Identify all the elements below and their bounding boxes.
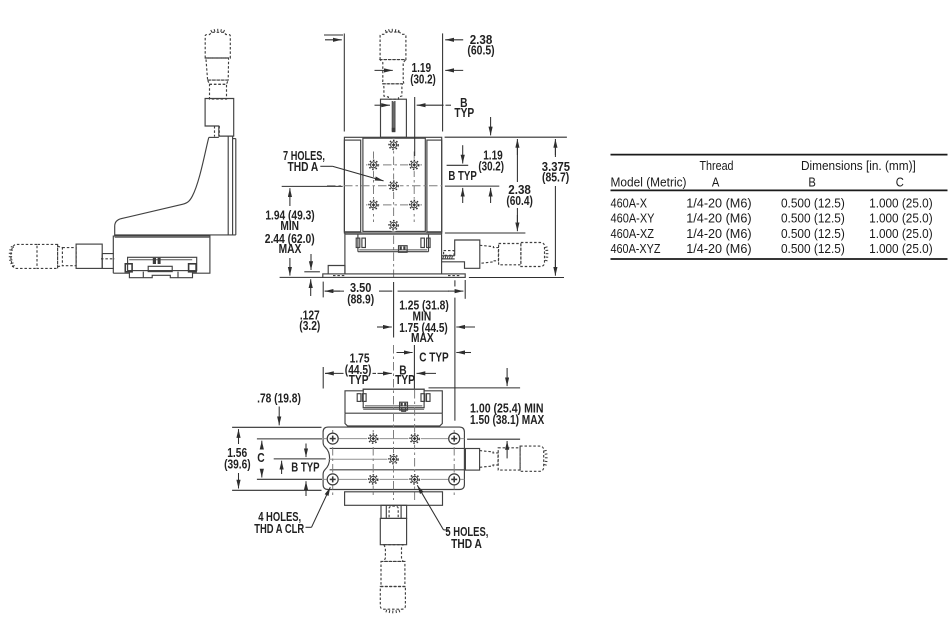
front view: X micrometer leadscrew (dotted) [444,251,454,256]
dim 1.56 (39.6) [232,426,321,428]
plan view: bottom micrometer mount [381,505,407,518]
plan view: bottom micrometer stem (dotted) [384,545,403,562]
plan view: right micrometer block [465,449,479,471]
dim B TYP bottom [417,372,437,374]
svg-text:(39.6): (39.6) [224,456,251,471]
front view: micrometer stem (dotted) [383,84,402,99]
left view: base feet band [129,272,192,278]
dim 3.50 (88.9) base width [322,282,324,298]
dim 1.19 (30.2) right side [445,136,567,138]
front view: micrometer barrel (dotted) [380,60,406,84]
svg-text:THD A CLR: THD A CLR [254,521,304,536]
plan view: platform outline [345,389,442,413]
plan view: hole row lines (gray) [323,438,464,440]
svg-text:TYP: TYP [349,372,369,387]
left view: horizontal micrometer knurl hatch [9,247,15,267]
left view: micrometer mount block [205,99,234,137]
front view: X micrometer thimble (dotted) [521,243,545,267]
svg-text:TYP: TYP [454,105,474,120]
dim .127 (3.2) base plate [304,271,320,273]
plan view: right micrometer barrel (dotted) [498,448,520,470]
left view: vertical micrometer thimble (dotted) [205,32,230,58]
svg-text:1/4-20 (M6): 1/4-20 (M6) [686,226,751,241]
front view: base feet marks (dotted) [333,275,345,277]
front view: X micrometer leadscrew hatch [443,256,453,259]
svg-text:1/4-20 (M6): 1/4-20 (M6) [686,196,751,211]
plan view: platform lower strip [345,413,442,426]
front view: clamp channel [357,234,359,251]
svg-text:460A-X: 460A-X [611,196,648,211]
dim 1.94 (49.3) MIN 2.44 (62.0) MAX [282,185,343,187]
dim B TYP plan view [274,458,326,460]
svg-text:(88.9): (88.9) [347,291,374,306]
svg-text:C: C [257,450,264,465]
svg-text:Dimensions [in. (mm)]: Dimensions [in. (mm)] [801,158,916,173]
plan view: right micrometer knurl hatch [544,450,548,465]
dim 3.375 (85.7) overall height [469,277,564,279]
front view: top plate [363,138,425,231]
svg-text:MAX: MAX [279,241,302,256]
front view: center lines (dashed) [393,140,395,232]
front view: 7 tapped holes THD A [387,139,399,151]
dim 2.38 (60.4) right side [445,232,526,234]
table: top rule [611,154,948,156]
left view: lock screw mark [153,258,156,264]
plan view: stage body [323,427,464,489]
left view: horizontal micrometer thimble (dotted) [11,244,37,268]
front view: clamp ears [356,238,360,247]
dim 1.25 (31.8) MIN 1.75 (44.5) MAX [393,282,395,338]
dim 2.38 (60.5) overall width, top [343,34,345,132]
svg-text:.78 (19.8): .78 (19.8) [257,391,301,406]
front view: left flange [344,140,360,232]
svg-text:Model (Metric): Model (Metric) [611,175,687,190]
front view: base bottom plate [323,274,465,278]
front view: stage body [344,137,441,233]
front view: right flange [427,140,442,232]
left view: carriage rail assembly [128,257,197,270]
svg-text:B: B [808,175,816,190]
svg-text:(60.4): (60.4) [506,193,533,208]
svg-text:THD A: THD A [451,536,482,551]
svg-text:THD A: THD A [288,159,319,174]
plan view: bottom micrometer knurl hatch [386,610,400,614]
svg-text:B TYP: B TYP [291,460,320,475]
plan view: center clip [400,402,408,410]
svg-text:1/4-20 (M6): 1/4-20 (M6) [686,241,751,256]
front view: micrometer mount [381,99,407,137]
plan view: right micrometer thimble (dotted) [520,446,544,471]
left view: left micrometer bracket step [102,254,114,269]
plan view: bottom micrometer spindle (dotted) [389,506,398,517]
plan view: 5 tapped holes THD A [367,432,379,444]
svg-text:(30.2): (30.2) [478,159,504,174]
svg-text:1.50 (38.1) MAX: 1.50 (38.1) MAX [470,412,545,427]
plan view: bottom micrometer thimble (dotted) [380,587,405,610]
svg-text:B TYP: B TYP [448,168,477,183]
left view: horizontal micrometer stem (dotted) [62,248,76,266]
front view: X micrometer bracket [442,240,480,268]
left view: horizontal micrometer block [76,244,102,268]
svg-text:1.000 (25.0): 1.000 (25.0) [869,226,933,241]
svg-text:C TYP: C TYP [419,350,449,365]
svg-text:Thread: Thread [700,158,734,173]
left view: horizontal micrometer barrel (dotted) [37,244,58,268]
svg-text:0.500 (12.5): 0.500 (12.5) [781,196,845,211]
front view: X micrometer stem (dotted) [480,245,499,263]
front view: X micrometer barrel (dotted) [499,244,521,265]
svg-text:0.500 (12.5): 0.500 (12.5) [781,226,845,241]
svg-text:1.000 (25.0): 1.000 (25.0) [869,211,933,226]
svg-text:0.500 (12.5): 0.500 (12.5) [781,241,845,256]
svg-text:A: A [712,175,720,190]
dim 1.75 (44.5) TYP [322,367,324,389]
plan view: carriage clamp ears [357,394,361,402]
front view: vertical micrometer thimble (dotted) [380,32,406,60]
plan view: center lines (dashed) [393,345,395,500]
svg-text:1.000 (25.0): 1.000 (25.0) [869,241,933,256]
plan view: body internal lines [330,447,465,449]
front view: X micrometer knurl hatch [545,247,549,261]
svg-text:(3.2): (3.2) [299,318,320,333]
dim C left side [257,438,322,440]
front view: center clip [399,246,408,253]
left view: rail end clamps [125,264,132,272]
left view: micrometer stem (dotted) [210,84,227,99]
left view: base block [113,236,210,273]
svg-text:460A-XYZ: 460A-XYZ [611,241,661,256]
left view: micrometer knurl hatch [211,29,225,33]
plan view: bottom micrometer block [380,518,406,544]
svg-text:460A-XY: 460A-XY [611,211,655,226]
front view: mount slot [391,101,393,132]
left view: hidden spindle (dotted) [214,126,216,137]
plan view: carriage [363,389,424,408]
svg-text:460A-XZ: 460A-XZ [611,226,655,241]
plan view: 4 clearance holes THD A CLR [327,433,339,445]
svg-text:0.500 (12.5): 0.500 (12.5) [781,211,845,226]
plan view: bottom plate [345,492,443,506]
left view: micrometer taper (dotted) [208,80,229,84]
left view: micrometer barrel (dotted) [206,58,229,80]
svg-text:TYP: TYP [395,372,415,387]
plan view: right micrometer stem (dotted) [480,451,498,468]
left view: carriage right face lines [227,136,229,235]
left view: bracket body outline [209,136,219,138]
svg-text:MAX: MAX [411,330,434,345]
front view: micrometer knurl hatch [385,29,399,33]
table: bottom rule [611,258,948,260]
plan view: bottom micrometer barrel (dotted) [381,561,405,586]
dim 1.00 (25.4) MIN 1.50 (38.1) MAX [429,387,521,389]
dim B TYP, top [414,97,416,156]
svg-text:(60.5): (60.5) [467,42,494,57]
front view: base sides [344,233,346,274]
left view: rail center block [148,266,172,271]
svg-text:1.000 (25.0): 1.000 (25.0) [869,196,933,211]
dim 1.19 (30.2) micrometer offset, top [375,69,393,71]
dim B TYP right side [462,145,464,163]
front view: base left step [328,266,345,274]
svg-text:1/4-20 (M6): 1/4-20 (M6) [686,211,751,226]
svg-text:(30.2): (30.2) [410,71,436,86]
dim C TYP [413,345,415,389]
svg-text:(85.7): (85.7) [542,170,569,185]
table: header rule [611,189,948,191]
svg-text:C: C [896,175,904,190]
